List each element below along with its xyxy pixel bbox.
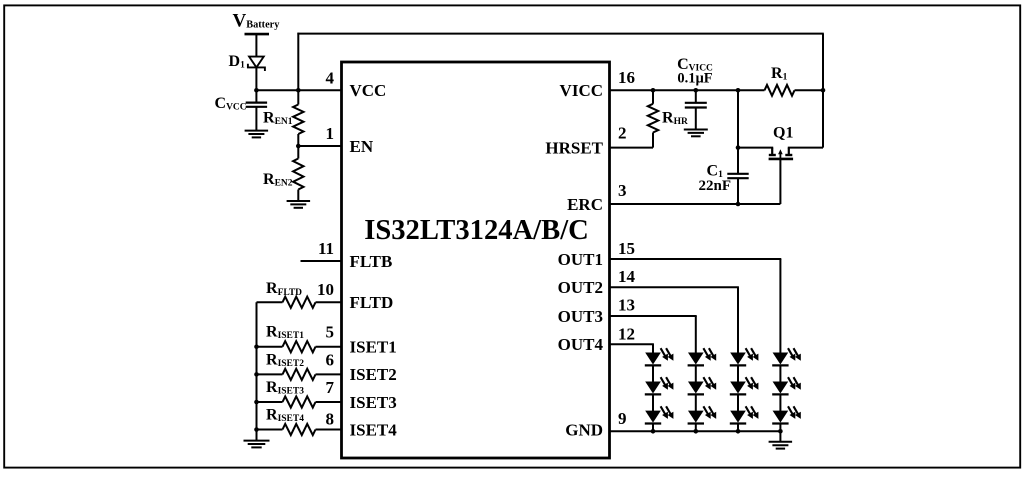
wire pin OUT4 <box>610 343 654 345</box>
node dot RHR top <box>651 88 656 93</box>
svg-text:8: 8 <box>326 410 335 429</box>
LED D22 <box>646 382 660 393</box>
capacitor CVCC <box>246 101 267 103</box>
svg-text:12: 12 <box>618 325 635 344</box>
resistor RHR <box>652 90 654 104</box>
node junction dot at VCC/CVCC <box>254 88 259 93</box>
wire VCC node to pin 4 <box>256 89 341 91</box>
resistor RISET4 <box>257 429 283 431</box>
LED D52 <box>774 382 788 393</box>
svg-text:2: 2 <box>618 124 627 143</box>
wire pin OUT3 <box>610 315 697 317</box>
svg-text:IS32LT3124A/B/C: IS32LT3124A/B/C <box>364 215 589 246</box>
wire pin OUT2 <box>610 286 739 288</box>
wire top rail horizontal <box>297 33 823 35</box>
node dot Q1 source <box>736 145 741 150</box>
wire left resistor bus <box>256 302 258 440</box>
wire pin 11 FLTB stub <box>301 260 342 262</box>
svg-text:GND: GND <box>565 420 603 439</box>
svg-text:OUT1: OUT1 <box>558 250 603 269</box>
LED D33 <box>689 411 703 422</box>
svg-text:7: 7 <box>326 378 335 397</box>
wire Q1 drain line right <box>788 147 823 149</box>
svg-text:ISET1: ISET1 <box>350 338 397 357</box>
svg-text:10: 10 <box>317 280 334 299</box>
svg-text:4: 4 <box>326 68 335 87</box>
svg-text:14: 14 <box>618 267 636 286</box>
svg-text:VICC: VICC <box>560 81 603 100</box>
svg-text:0.1µF: 0.1µF <box>677 71 712 87</box>
node dot R1 right <box>821 88 826 93</box>
svg-text:OUT3: OUT3 <box>558 307 603 326</box>
resistor RISET3 <box>257 401 283 403</box>
LED D43 <box>731 411 745 422</box>
svg-text:1: 1 <box>326 124 335 143</box>
node dot ISET2 bus <box>254 372 259 377</box>
resistor REN2 <box>297 146 299 159</box>
svg-text:Q1: Q1 <box>773 125 793 142</box>
svg-text:ERC: ERC <box>567 195 603 214</box>
wire D1 to VCC node <box>255 67 257 102</box>
node dot CVICC top <box>694 88 699 93</box>
svg-text:3: 3 <box>618 181 627 200</box>
node dot GND col x=738.0 <box>736 429 741 434</box>
node dot ISET4 bus <box>254 427 259 432</box>
node dot GND col x=653.0 <box>651 429 656 434</box>
diode D1 (schottky) <box>249 57 264 68</box>
wire LED column segments <box>695 365 697 382</box>
ground under CVCC <box>245 130 269 132</box>
node dot C1 branch top <box>736 88 741 93</box>
svg-text:9: 9 <box>618 409 627 428</box>
ground under REN2 <box>287 200 311 202</box>
LED D21 <box>646 353 660 364</box>
wire LED column segments <box>652 365 654 382</box>
IC U1 IS32LT3124A/B/C body <box>342 62 610 458</box>
wire Q1 source line left <box>738 147 773 149</box>
svg-text:ISET2: ISET2 <box>350 365 397 384</box>
wire top rail riser <box>297 33 299 91</box>
node dot GND col x=780.4 <box>778 429 783 434</box>
LED D42 <box>731 382 745 393</box>
node dot GND col x=695.8 <box>694 429 699 434</box>
LED D31 <box>689 353 703 364</box>
wire C1 to ERC node <box>737 178 739 204</box>
wire LED column segments <box>737 365 739 382</box>
ground under GND rail <box>769 441 793 443</box>
svg-text:16: 16 <box>618 68 635 87</box>
wire pin 16 VICC rail <box>610 89 765 91</box>
svg-text:HRSET: HRSET <box>545 138 603 157</box>
resistor RISET2 <box>257 373 283 375</box>
svg-text:13: 13 <box>618 296 635 315</box>
svg-text:11: 11 <box>318 239 334 258</box>
svg-text:EN: EN <box>350 137 374 156</box>
capacitor CVICC <box>695 90 697 102</box>
wire pin 3 ERC <box>610 203 781 205</box>
wire LED column segments <box>779 365 781 382</box>
resistor REN1 <box>297 90 299 104</box>
transistor Q1 <box>771 148 773 155</box>
wire right rail drop to Q1 <box>822 34 824 148</box>
wire battery to D1 <box>255 35 257 56</box>
resistor RISET1 <box>257 346 283 348</box>
node dot ISET3 bus <box>254 400 259 405</box>
wire EN node to pin 1 <box>298 145 341 147</box>
ground under left bus <box>244 440 270 442</box>
LED D53 <box>774 411 788 422</box>
svg-text:5: 5 <box>326 323 335 342</box>
wire pin 2 HRSET <box>610 147 654 149</box>
wire CVCC to ground <box>255 107 257 131</box>
svg-text:OUT2: OUT2 <box>558 278 603 297</box>
LED D51 <box>774 353 788 364</box>
LED D41 <box>731 353 745 364</box>
svg-text:ISET3: ISET3 <box>350 393 397 412</box>
svg-text:FLTB: FLTB <box>350 252 393 271</box>
wire Q1 gate lead <box>779 159 781 204</box>
wire pin OUT1 <box>610 258 782 260</box>
svg-text:FLTD: FLTD <box>350 293 394 312</box>
LED D32 <box>689 382 703 393</box>
node junction dot REN1 top <box>296 88 301 93</box>
capacitor C1 <box>727 173 748 175</box>
svg-text:15: 15 <box>618 239 635 258</box>
resistor R1 <box>765 85 795 96</box>
ground under CVICC <box>684 129 708 131</box>
battery rail bar <box>245 33 270 36</box>
node dot ERC/C1 <box>736 202 741 207</box>
svg-text:OUT4: OUT4 <box>558 335 604 354</box>
wire C1 branch vertical <box>737 90 739 173</box>
svg-text:VCC: VCC <box>350 81 387 100</box>
wire pin 9 GND rail <box>610 430 781 432</box>
svg-text:6: 6 <box>326 350 335 369</box>
wire GND rail to ground <box>779 431 781 441</box>
svg-text:ISET4: ISET4 <box>350 420 398 439</box>
node junction dot EN <box>296 144 301 149</box>
svg-text:22nF: 22nF <box>699 178 732 194</box>
node dot ISET1 bus <box>254 344 259 349</box>
resistor RFLTD <box>257 301 283 303</box>
LED D23 <box>646 411 660 422</box>
